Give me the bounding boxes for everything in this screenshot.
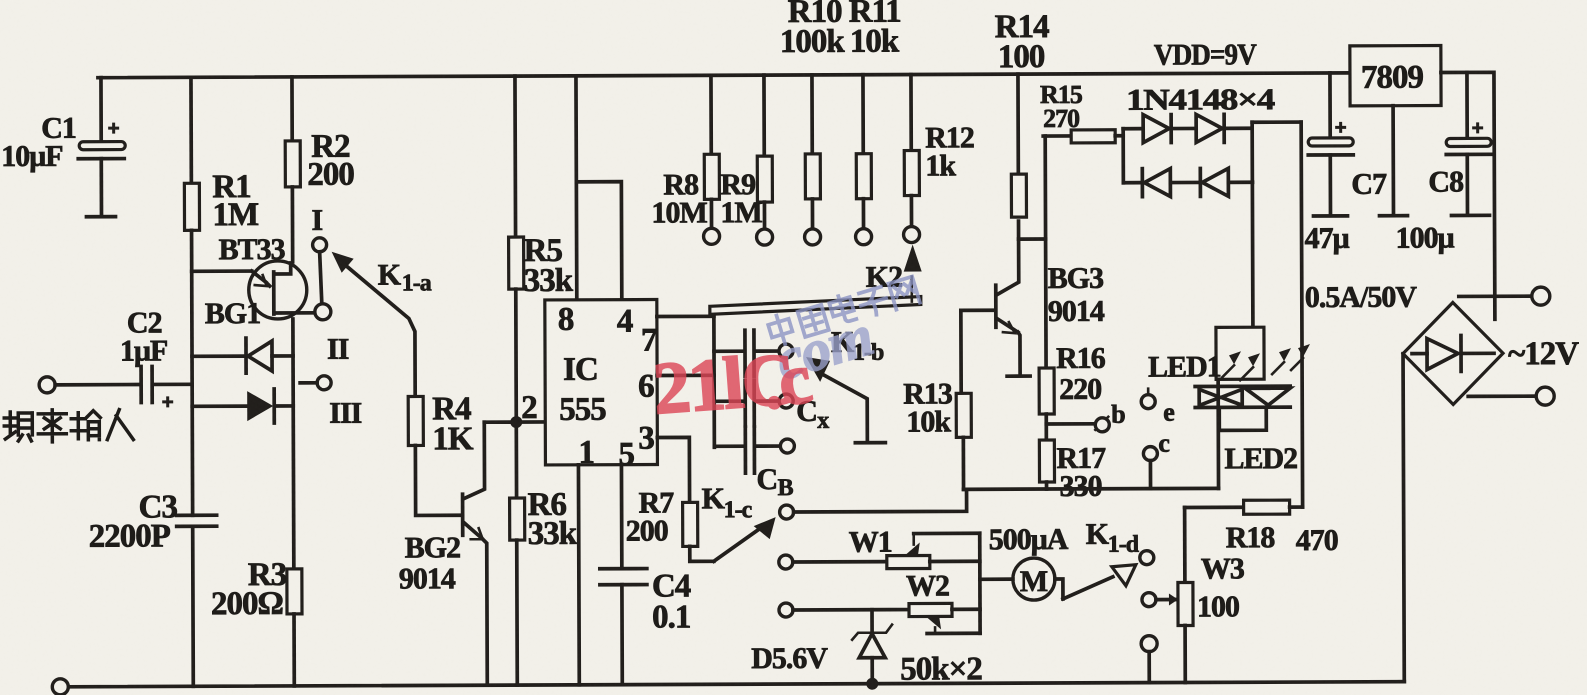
label frequency input (drawn glyphs): [4, 410, 133, 442]
LED1 LED2 pair: [1195, 384, 1290, 388]
switch K1-d blade with open arrow: [1063, 577, 1113, 599]
resistor R18: [1185, 505, 1244, 509]
wire LED bottom loop: [1219, 410, 1266, 430]
wire pin 8 feed: [574, 76, 579, 300]
resistor R7: [683, 502, 698, 546]
node K1-d contact: [1140, 551, 1154, 565]
node AC terminal bottom: [1468, 394, 1537, 398]
wire pin 5: [620, 465, 624, 568]
resistor R8: [709, 75, 713, 154]
capacitor C7: [1328, 73, 1332, 139]
wire R15 node down to R16: [1043, 136, 1048, 368]
wire BG3 base to R13: [961, 308, 994, 312]
node K1-a pole: [315, 304, 331, 320]
wire R4 to BG2 base: [415, 445, 459, 515]
ground C8 end bar: [1451, 213, 1489, 217]
resistor R2: [285, 141, 300, 187]
node W1 input terminal: [779, 555, 793, 569]
node bottom-left terminal: [52, 679, 68, 695]
resistor R15: [1043, 134, 1071, 138]
paper noise overlay: [0, 0, 1, 1]
resistor R14: [1016, 74, 1020, 174]
bridge rectifier: [1403, 302, 1503, 404]
wire diode block top to right branch: [1252, 120, 1301, 124]
capacitor C3: [177, 513, 217, 517]
resistor R17: [1039, 440, 1054, 482]
wire contact I to pole: [320, 252, 322, 304]
node terminal e: [1147, 389, 1150, 395]
wire R5/R6 branch: [513, 76, 517, 237]
resistor R12: [909, 75, 913, 151]
potentiometer W3: [1183, 508, 1187, 583]
node terminal c: [1143, 447, 1157, 461]
wire capacitor bank left bus: [712, 310, 716, 447]
wire R1 branch: [189, 77, 193, 183]
wire pin 3: [657, 437, 689, 502]
transistor BG1 BT33: [249, 261, 307, 319]
LED1 package box: [1216, 327, 1264, 379]
resistor R1: [184, 183, 199, 230]
resistor R4: [408, 396, 423, 445]
wire pin 4 feed: [576, 182, 621, 300]
wire pin 6: [657, 373, 714, 377]
potentiometer W1: [793, 560, 887, 564]
wire R2 line below BG1: [291, 319, 296, 569]
diode input clamp upper: [192, 354, 244, 358]
regulator 7809: [1350, 46, 1441, 106]
wire pin 2: [484, 420, 545, 424]
wire top supply rail: [98, 73, 1350, 78]
switch K2 wiper bar: [710, 297, 921, 315]
resistor R3: [287, 569, 302, 614]
ground K1-b rest bar: [855, 441, 885, 445]
capacitor CB row3: [714, 444, 743, 448]
LED emission arrows: [1222, 358, 1303, 380]
node switch contact III: [317, 376, 331, 390]
node bottom terminal right: [1141, 636, 1157, 652]
capacitor C1: [99, 78, 103, 143]
watermark blue chinese: [766, 274, 921, 392]
resistor R10: [810, 75, 814, 154]
watermark red 21IC: [650, 338, 816, 431]
switch K1-b blade: [806, 357, 830, 382]
capacitor Cx row2: [714, 399, 743, 403]
diode input clamp lower (filled): [192, 404, 246, 408]
capacitor C8: [1465, 72, 1469, 139]
wire LED left lead down: [1216, 379, 1220, 488]
wire pin 1 to ground: [577, 465, 582, 685]
resistor R5: [509, 237, 524, 289]
ground C1 end bar: [86, 215, 115, 219]
zener diode D 5.6V: [870, 610, 874, 632]
resistor R13: [959, 310, 963, 393]
node W2 input terminal: [779, 603, 793, 617]
transistor BG3 9014: [998, 221, 1019, 294]
node pin2 junction: [510, 416, 522, 428]
wire W1 W2 right loop: [978, 533, 982, 633]
op-amp U1 IC 555 box: [545, 300, 658, 465]
wire bottom ground rail: [68, 682, 1404, 687]
node switch contact I: [313, 238, 327, 252]
node AC terminal top: [1459, 294, 1533, 298]
wire bridge left corner to ground rail: [1403, 354, 1404, 682]
wire pin 7: [657, 314, 714, 318]
capacitor C4: [600, 567, 647, 571]
resistor R11: [861, 75, 865, 154]
wire measure bus (line A): [964, 487, 1219, 492]
node zener ground junction: [866, 678, 878, 690]
switch K1-a blade: [332, 252, 354, 273]
wire K1-c pole to R13: [794, 489, 967, 512]
node terminal b: [1046, 422, 1095, 426]
capacitor C2: [39, 377, 55, 393]
wire R2 branch: [290, 77, 294, 141]
potentiometer W2: [793, 608, 909, 612]
wire 7809 output right: [1441, 72, 1495, 319]
resistor R9: [762, 75, 766, 156]
ground 7809 middle lead: [1391, 106, 1395, 215]
capacitor Cx row1: [714, 349, 743, 353]
transistor BG2 9014: [461, 494, 465, 535]
wire diode block to LED box: [1251, 182, 1255, 327]
meter M 500uA: [1013, 558, 1055, 600]
ground BG3 emitter bar: [1007, 374, 1030, 378]
resistor R16: [1039, 368, 1054, 414]
wire R7 to K1-c blade: [690, 546, 714, 561]
ground C7 end bar: [1313, 214, 1347, 218]
switch K1-c: [714, 530, 758, 561]
resistor R6: [510, 498, 525, 540]
